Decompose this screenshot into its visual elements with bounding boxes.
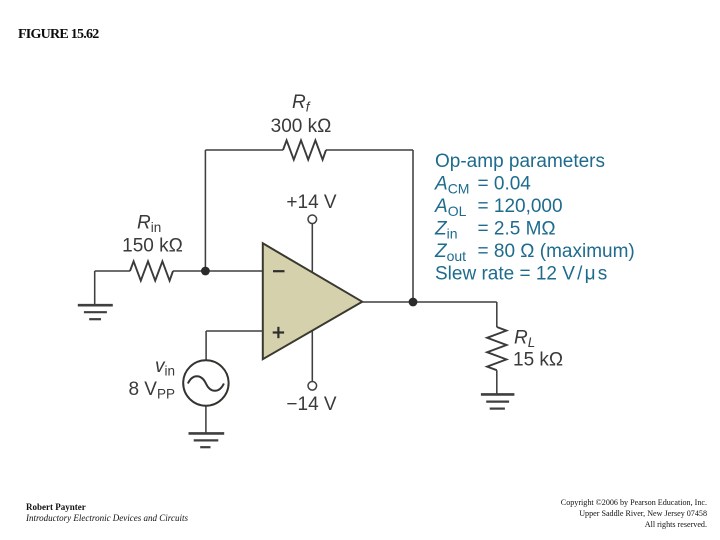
ground (input side) <box>78 305 113 319</box>
node B: output junction dot <box>409 298 418 307</box>
svg-text:Op-amp parameters: Op-amp parameters <box>435 151 605 172</box>
resistor Rin zigzag <box>130 261 173 280</box>
resistor Rf zigzag <box>283 140 326 159</box>
wire: op-amp down to -14V terminal <box>311 328 313 382</box>
wire: down to RL <box>496 302 498 327</box>
wire: non-inverting input to source <box>206 330 263 332</box>
resistor RL zigzag (vertical) <box>487 327 506 370</box>
svg-text:Slew rate = 12 V/μs: Slew rate = 12 V/μs <box>435 263 609 284</box>
svg-text:Zin= 2.5 MΩ: Zin= 2.5 MΩ <box>434 219 556 242</box>
svg-text:Rin: Rin <box>137 213 161 236</box>
svg-text:300 kΩ: 300 kΩ <box>271 116 332 137</box>
+14V terminal circle <box>308 215 317 224</box>
node A: junction dot at inverting input <box>201 267 210 276</box>
wire: op-amp output to load branch <box>362 301 497 303</box>
svg-text:Zout= 80 Ω (maximum): Zout= 80 Ω (maximum) <box>434 241 635 264</box>
wire: source to ground <box>205 406 207 433</box>
copyright notice <box>561 497 707 530</box>
svg-text:Rf: Rf <box>292 92 311 115</box>
wire: input to op-amp inverting input <box>173 270 263 272</box>
wire: feedback top right segment <box>326 149 413 151</box>
ground (source side) <box>189 433 225 447</box>
wire: feedback right vertical (down to output node) <box>412 150 414 302</box>
ground (load side) <box>481 394 515 408</box>
inverting input minus sign <box>273 270 285 272</box>
credit Robert Paynter <box>26 502 188 524</box>
svg-text:150 kΩ: 150 kΩ <box>122 236 183 257</box>
wire: down to source vin <box>205 331 207 361</box>
svg-text:RL: RL <box>514 328 535 351</box>
svg-text:AOL= 120,000: AOL= 120,000 <box>434 196 563 219</box>
wire: feedback left vertical (node A up to Rf) <box>204 150 206 271</box>
wire: down to left ground <box>94 271 96 305</box>
svg-text:−14 V: −14 V <box>286 394 337 415</box>
svg-text:15 kΩ: 15 kΩ <box>513 350 563 371</box>
wire: feedback top left segment <box>205 149 283 151</box>
title FIGURE 15.62 <box>18 27 98 43</box>
svg-text:8 VPP: 8 VPP <box>128 379 175 402</box>
wire: +14V supply down into op-amp <box>311 224 313 275</box>
sine symbol inside source <box>188 376 224 391</box>
wire: input left segment <box>95 270 130 272</box>
op-amp U1 triangle <box>263 243 362 359</box>
non-inverting input plus sign <box>273 327 284 338</box>
svg-text:+14 V: +14 V <box>286 192 337 213</box>
svg-text:vin: vin <box>155 356 175 379</box>
svg-text:ACM= 0.04: ACM= 0.04 <box>434 174 531 197</box>
-14V terminal circle <box>308 382 317 391</box>
source vin circle <box>183 360 228 405</box>
wire: RL to ground <box>496 370 498 393</box>
